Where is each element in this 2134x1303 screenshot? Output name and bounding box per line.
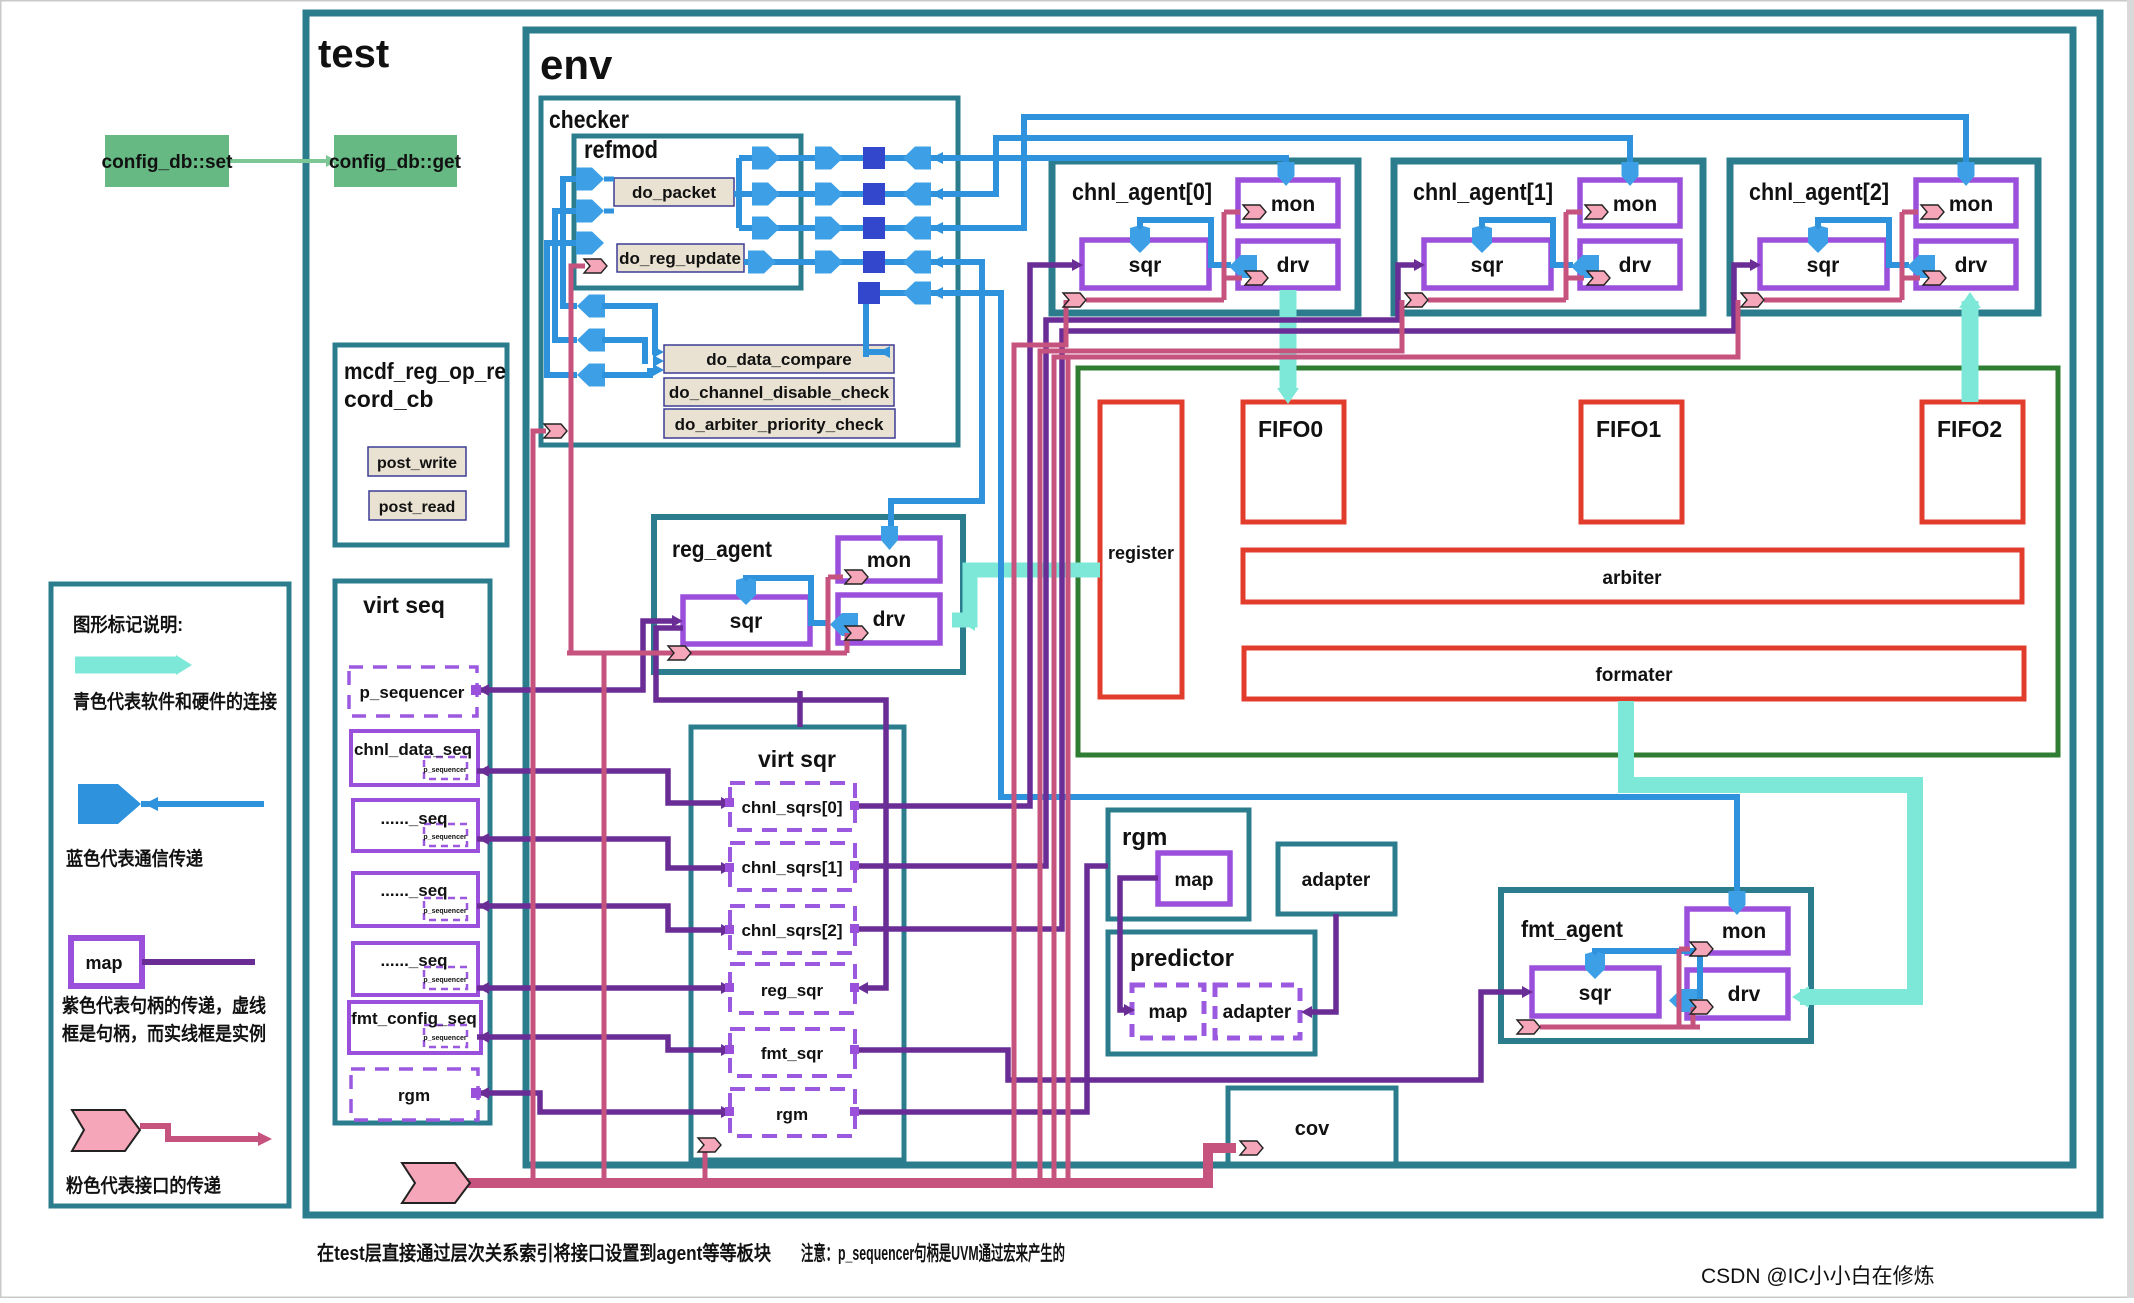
wire checker left loop 2 (555, 211, 577, 340)
fmt_agent drv box (1687, 970, 1788, 1018)
wire tlm row4 (744, 262, 982, 530)
chnl_agent1 sqr box (1424, 240, 1551, 288)
......_seq box 2 (353, 873, 478, 926)
svg-text:virt seq: virt seq (363, 592, 445, 618)
purple stub squares virt sqr left (725, 798, 734, 807)
mon top arrow chnl_agent2 (1958, 162, 1975, 186)
svg-text:rgm: rgm (1122, 824, 1167, 851)
pink wire reg_agent vif (567, 577, 847, 1183)
mcdf_reg_op_record_cb box (335, 345, 507, 545)
purple stub squares virt seq (471, 685, 481, 695)
wire compare input 3 (602, 371, 656, 375)
svg-text:cov: cov (1295, 1118, 1330, 1140)
env container box (526, 30, 2073, 1165)
fmt_sqr dashed box (730, 1029, 855, 1076)
svg-text:FIFO1: FIFO1 (1596, 416, 1661, 442)
chnl_agent0 sqr box (1082, 240, 1209, 288)
svg-text:predictor: predictor (1130, 945, 1234, 972)
wire seq3 to reg_sqr (477, 985, 722, 991)
flag virt sqr bottom (698, 1138, 721, 1152)
svg-text:post_read: post_read (379, 499, 455, 516)
svg-text:env: env (540, 41, 613, 88)
svg-text:config_db::set: config_db::set (102, 152, 234, 173)
svg-text:do_packet: do_packet (632, 183, 716, 202)
arbiter red box (1243, 550, 2022, 602)
wire rgm seq to rgm handle (477, 1093, 722, 1112)
wire checker left loop 3 (547, 243, 577, 375)
flag cov (1240, 1141, 1263, 1155)
svg-text:rgm: rgm (776, 1105, 808, 1124)
svg-text:adapter: adapter (1302, 870, 1371, 891)
svg-text:mon: mon (867, 549, 911, 572)
svg-text:mon: mon (1271, 193, 1315, 216)
legend map box (71, 938, 142, 986)
small p_sequencer stub in seq3 (424, 967, 467, 989)
tlm pentagons row3 (752, 217, 780, 240)
flag reg_agent mon (845, 570, 868, 584)
svg-text:formater: formater (1595, 665, 1673, 686)
flag fmt_agent mon (1690, 942, 1713, 956)
wire tlm row1 (739, 158, 1286, 166)
wire rgm handle to rgm box (855, 866, 1108, 1112)
wire chnl_agent2 sqr to drv (1818, 220, 1909, 265)
wire checker left loop 1 (563, 179, 577, 306)
small p_sequencer stub in seq2 (424, 898, 467, 920)
green arrow set->get (229, 159, 327, 163)
FIFO1 red box (1581, 402, 1682, 522)
svg-text:virt sqr: virt sqr (758, 746, 836, 772)
svg-text:checker: checker (549, 106, 629, 134)
flag checker left (544, 424, 567, 438)
svg-text:fmt_config_seq: fmt_config_seq (351, 1009, 477, 1028)
chnl_data_seq box (351, 731, 478, 785)
wire refmod internal vertical (736, 158, 742, 228)
do_reg_update box (617, 244, 744, 272)
pink wire fmt_agent vif (1540, 949, 1700, 1027)
svg-text:青色代表软件和硬件的连接: 青色代表软件和硬件的连接 (73, 690, 277, 713)
svg-text:reg_agent: reg_agent (672, 536, 772, 562)
purple stub squares virt sqr right (850, 801, 859, 810)
svg-text:紫色代表句柄的传递，虚线: 紫色代表句柄的传递，虚线 (62, 994, 266, 1017)
chnl_agent0 drv box (1238, 241, 1338, 288)
svg-text:fmt_sqr: fmt_sqr (761, 1044, 824, 1063)
svg-text:chnl_agent[1]: chnl_agent[1] (1413, 179, 1553, 206)
svg-text:chnl_agent[0]: chnl_agent[0] (1072, 179, 1212, 206)
legend box (51, 584, 289, 1206)
flag chnl_agent2 drv (1923, 271, 1946, 285)
chnl_agent[0] box (1052, 161, 1358, 313)
chnl_sqrs[2] dashed box (730, 906, 855, 953)
pink wire chnl_agent0 vif (1014, 212, 1242, 1183)
svg-text:sqr: sqr (1807, 254, 1840, 277)
svg-text:FIFO0: FIFO0 (1258, 416, 1323, 442)
reg_agent box (654, 517, 963, 672)
svg-text:蓝色代表通信传递: 蓝色代表通信传递 (66, 847, 203, 870)
svg-text:mcdf_reg_op_re: mcdf_reg_op_re (344, 358, 506, 384)
chnl_agent1 mon box (1580, 180, 1680, 226)
reg_sqr dashed box (730, 964, 855, 1013)
flag chnl_agent0 drv (1245, 271, 1268, 285)
wire tlm row2 (739, 138, 1630, 194)
wire do_packet right stub (734, 191, 739, 197)
svg-text:p_sequencer: p_sequencer (423, 834, 466, 841)
svg-text:map: map (1174, 870, 1213, 891)
wire adapter to predictor adapter (1310, 914, 1336, 1012)
fmt_config_seq box (349, 1002, 481, 1053)
svg-text:sqr: sqr (730, 610, 763, 633)
chnl_agent2 sqr box (1760, 240, 1887, 288)
tlm symbols row5 (858, 282, 880, 304)
refmod box (574, 136, 801, 288)
tlm pentagons row1 (752, 147, 780, 170)
mon top arrow fmt_agent (1729, 891, 1746, 915)
chnl_agent[2] box (1730, 161, 2038, 313)
pink wire checker vif (533, 431, 546, 1183)
svg-text:p_sequencer: p_sequencer (423, 767, 466, 774)
svg-text:......_seq: ......_seq (380, 881, 447, 900)
config_db::get green box (334, 135, 457, 187)
flag fmt_agent bottom (1517, 1020, 1540, 1034)
fmt_agent mon box (1687, 909, 1788, 953)
svg-text:do_channel_disable_check: do_channel_disable_check (669, 383, 890, 402)
cyan wire formater to fmt_agent drv (1626, 701, 1915, 997)
chnl_agent0 mon box (1238, 180, 1338, 226)
chnl_agent2 drv box (1916, 241, 2016, 288)
wire chnl_data_seq to chnl_sqrs0 (477, 771, 722, 803)
fmt_agent box (1501, 890, 1811, 1041)
refmod left input pentagons (576, 168, 604, 191)
pink wire extra bus line (1054, 357, 1068, 1183)
wire chnl_sqrs1 to chnl_agent1 sqr (855, 265, 1414, 866)
svg-text:chnl_data_seq: chnl_data_seq (354, 740, 472, 759)
chnl_agent1 drv box (1580, 241, 1680, 288)
svg-text:adapter: adapter (1223, 1002, 1292, 1023)
rgm handle dashed box (virt sqr) (730, 1089, 855, 1136)
legend purple sample line (142, 959, 255, 965)
DUT green box (1078, 368, 2058, 755)
wire reg_agent sqr to reg_sqr handle (656, 628, 886, 988)
svg-text:p_sequencer: p_sequencer (423, 1035, 466, 1042)
svg-text:fmt_agent: fmt_agent (1521, 916, 1623, 942)
svg-text:cord_cb: cord_cb (344, 386, 433, 412)
svg-text:......_seq: ......_seq (380, 951, 447, 970)
svg-text:map: map (1148, 1002, 1187, 1023)
svg-text:chnl_sqrs[2]: chnl_sqrs[2] (741, 921, 842, 940)
svg-text:图形标记说明:: 图形标记说明: (73, 613, 183, 636)
reg_agent mon box (838, 538, 940, 581)
svg-text:mon: mon (1722, 920, 1766, 943)
svg-text:arbiter: arbiter (1602, 568, 1662, 589)
flag chnl_agent1 drv (1587, 271, 1610, 285)
mon top arrow chnl_agent1 (1622, 162, 1639, 186)
wire p_sequencer to reg_agent sqr (477, 621, 672, 690)
wire chnl_sqrs2 to chnl_agent2 sqr (855, 265, 1750, 929)
svg-text:chnl_sqrs[0]: chnl_sqrs[0] (741, 798, 842, 817)
......_seq box 3 (353, 943, 478, 995)
wire chnl_sqrs0 to chnl_agent0 sqr (855, 265, 1072, 806)
wire tlm row5 (866, 293, 1737, 895)
FIFO2 red box (1922, 402, 2023, 522)
svg-text:config_db::get: config_db::get (329, 152, 462, 173)
FIFO0 red box (1243, 402, 1344, 522)
chnl_sqrs[1] dashed box (730, 843, 855, 890)
svg-text:test: test (318, 32, 389, 76)
wire fmt_agent sqr to drv (1595, 951, 1700, 999)
svg-text:do_data_compare: do_data_compare (706, 350, 852, 369)
......_seq box 1 (353, 800, 478, 851)
svg-text:drv: drv (1728, 983, 1761, 1006)
flag chnl_agent2 bottom (1741, 293, 1764, 307)
small p_sequencer stub in fmt_config_seq (424, 1025, 467, 1047)
rgm box (1108, 810, 1249, 919)
config_db::set green box (105, 135, 229, 187)
svg-text:p_sequencer: p_sequencer (360, 683, 465, 702)
reg_agent drv box (838, 595, 940, 643)
svg-text:sqr: sqr (1129, 254, 1162, 277)
svg-text:drv: drv (1277, 254, 1310, 277)
pink wire main interface bus bottom (466, 1148, 1236, 1183)
do_arbiter_priority_check box (664, 409, 895, 438)
wire fmt_config_seq to fmt_sqr (477, 1037, 722, 1050)
wire left pentagons to do_packet (604, 179, 614, 211)
svg-text:drv: drv (873, 608, 906, 631)
cyan wire chnl_agent0 drv to FIFO0 (1280, 290, 1297, 392)
big pink interface flag (402, 1163, 470, 1203)
chnl_agent2 mon box (1916, 180, 2016, 226)
tlm pentagons row4 (748, 251, 776, 274)
do_packet box (614, 178, 734, 206)
svg-text:......_seq: ......_seq (380, 809, 447, 828)
flag chnl_agent2 mon (1921, 205, 1944, 219)
flag chnl_agent0 bottom (1063, 293, 1086, 307)
chnl_sqrs[0] dashed box (730, 783, 855, 830)
predictor map dashed box (1132, 985, 1204, 1038)
svg-text:注意：p_sequencer句柄是UVM通过宏来产生的: 注意：p_sequencer句柄是UVM通过宏来产生的 (801, 1241, 1065, 1265)
small p_sequencer stub in seq1 (424, 824, 467, 846)
svg-text:p_sequencer: p_sequencer (423, 908, 466, 915)
post_write box (368, 447, 466, 476)
rgm map box (1158, 853, 1230, 904)
cov box (1228, 1088, 1396, 1165)
svg-text:CSDN @IC小小白在修炼: CSDN @IC小小白在修炼 (1701, 1265, 1935, 1288)
svg-text:refmod: refmod (584, 136, 658, 164)
pink wire virt sqr vif (703, 1150, 708, 1183)
svg-text:post_write: post_write (377, 455, 457, 472)
legend blue sample (78, 784, 141, 824)
svg-text:drv: drv (1955, 254, 1988, 277)
svg-text:FIFO2: FIFO2 (1937, 416, 2002, 442)
test container box (306, 13, 2100, 1215)
svg-text:粉色代表接口的传递: 粉色代表接口的传递 (66, 1174, 221, 1197)
svg-text:rgm: rgm (398, 1086, 430, 1105)
svg-text:map: map (85, 953, 122, 973)
flag chnl_agent1 mon (1585, 205, 1608, 219)
formater red box (1244, 648, 2024, 699)
do_channel_disable_check box (664, 378, 894, 406)
post_read box (369, 491, 466, 520)
rgm handle dashed box (virt seq) (351, 1069, 478, 1120)
checker box (541, 98, 958, 445)
svg-text:do_reg_update: do_reg_update (619, 249, 741, 268)
svg-text:框是句柄，而实线框是实例: 框是句柄，而实线框是实例 (62, 1022, 266, 1045)
predictor box (1108, 932, 1315, 1054)
svg-text:drv: drv (1619, 254, 1652, 277)
cyan wire register to reg_agent drv (952, 570, 1100, 620)
register red box (1100, 402, 1182, 697)
svg-text:sqr: sqr (1471, 254, 1504, 277)
svg-text:mon: mon (1613, 193, 1657, 216)
pink wire chnl_agent2 vif (1054, 212, 1920, 1183)
p_sequencer dashed box (349, 667, 477, 716)
flag chnl_agent0 mon (1243, 205, 1266, 219)
wire rgm map to predictor map (1120, 878, 1158, 1010)
small p_sequencer stub in chnl_data_seq (424, 757, 467, 779)
svg-text:mon: mon (1949, 193, 1993, 216)
mon top arrow reg_agent (881, 526, 898, 550)
cyan wire FIFO2 to chnl_agent2 drv (1962, 301, 1979, 402)
arrowheads into virt seq boxes (478, 684, 489, 696)
flag reg_agent drv (845, 626, 868, 640)
virt sqr box (691, 727, 904, 1160)
tlm pentagons row2 (752, 183, 780, 206)
wire compare input 2 (602, 340, 648, 361)
pink wire chnl_agent1 vif (1040, 212, 1584, 1183)
do_data_compare box (664, 345, 894, 373)
predictor adapter dashed box (1215, 985, 1300, 1038)
flag do_reg_update (584, 259, 607, 273)
fmt_agent sqr box (1532, 968, 1659, 1016)
wire chnl_agent0 sqr to drv (1140, 220, 1231, 265)
svg-text:register: register (1108, 543, 1174, 563)
wire chnl_agent1 sqr to drv (1482, 220, 1573, 265)
flag fmt_agent drv (1690, 1000, 1713, 1014)
wire compare input 1 (602, 306, 658, 352)
virt seq box (335, 581, 490, 1123)
do_data_compare input pentagons (577, 295, 605, 318)
svg-text:p_sequencer: p_sequencer (423, 977, 466, 984)
flag chnl_agent1 bottom (1405, 293, 1428, 307)
flag reg_agent bottom (668, 646, 691, 660)
svg-text:reg_sqr: reg_sqr (761, 981, 824, 1000)
chnl_agent[1] box (1394, 161, 1703, 313)
svg-text:在test层直接通过层次关系索引将接口设置到agent等等板: 在test层直接通过层次关系索引将接口设置到agent等等板块 (317, 1241, 772, 1265)
svg-text:sqr: sqr (1579, 982, 1612, 1005)
reg_agent sqr box (683, 597, 810, 644)
wire seq1 to chnl_sqrs1 (477, 839, 722, 868)
svg-text:chnl_agent[2]: chnl_agent[2] (1749, 179, 1889, 206)
legend cyan sample (75, 657, 176, 674)
svg-text:chnl_sqrs[1]: chnl_sqrs[1] (741, 858, 842, 877)
wire branch into chnl_sqrs0 top (797, 691, 803, 727)
wire fmt_sqr to fmt_agent sqr (855, 992, 1522, 1080)
wire reg_agent sqr to drv (746, 578, 826, 623)
wire tlm row3 (739, 117, 1966, 228)
legend pink flag sample (72, 1110, 140, 1151)
adapter box (1278, 844, 1395, 914)
mon top arrow chnl_agent0 (1278, 162, 1295, 186)
svg-text:do_arbiter_priority_check: do_arbiter_priority_check (675, 415, 884, 434)
wire seq2 to chnl_sqrs2 (477, 906, 722, 930)
pink wire do_reg_update vif (571, 266, 585, 653)
